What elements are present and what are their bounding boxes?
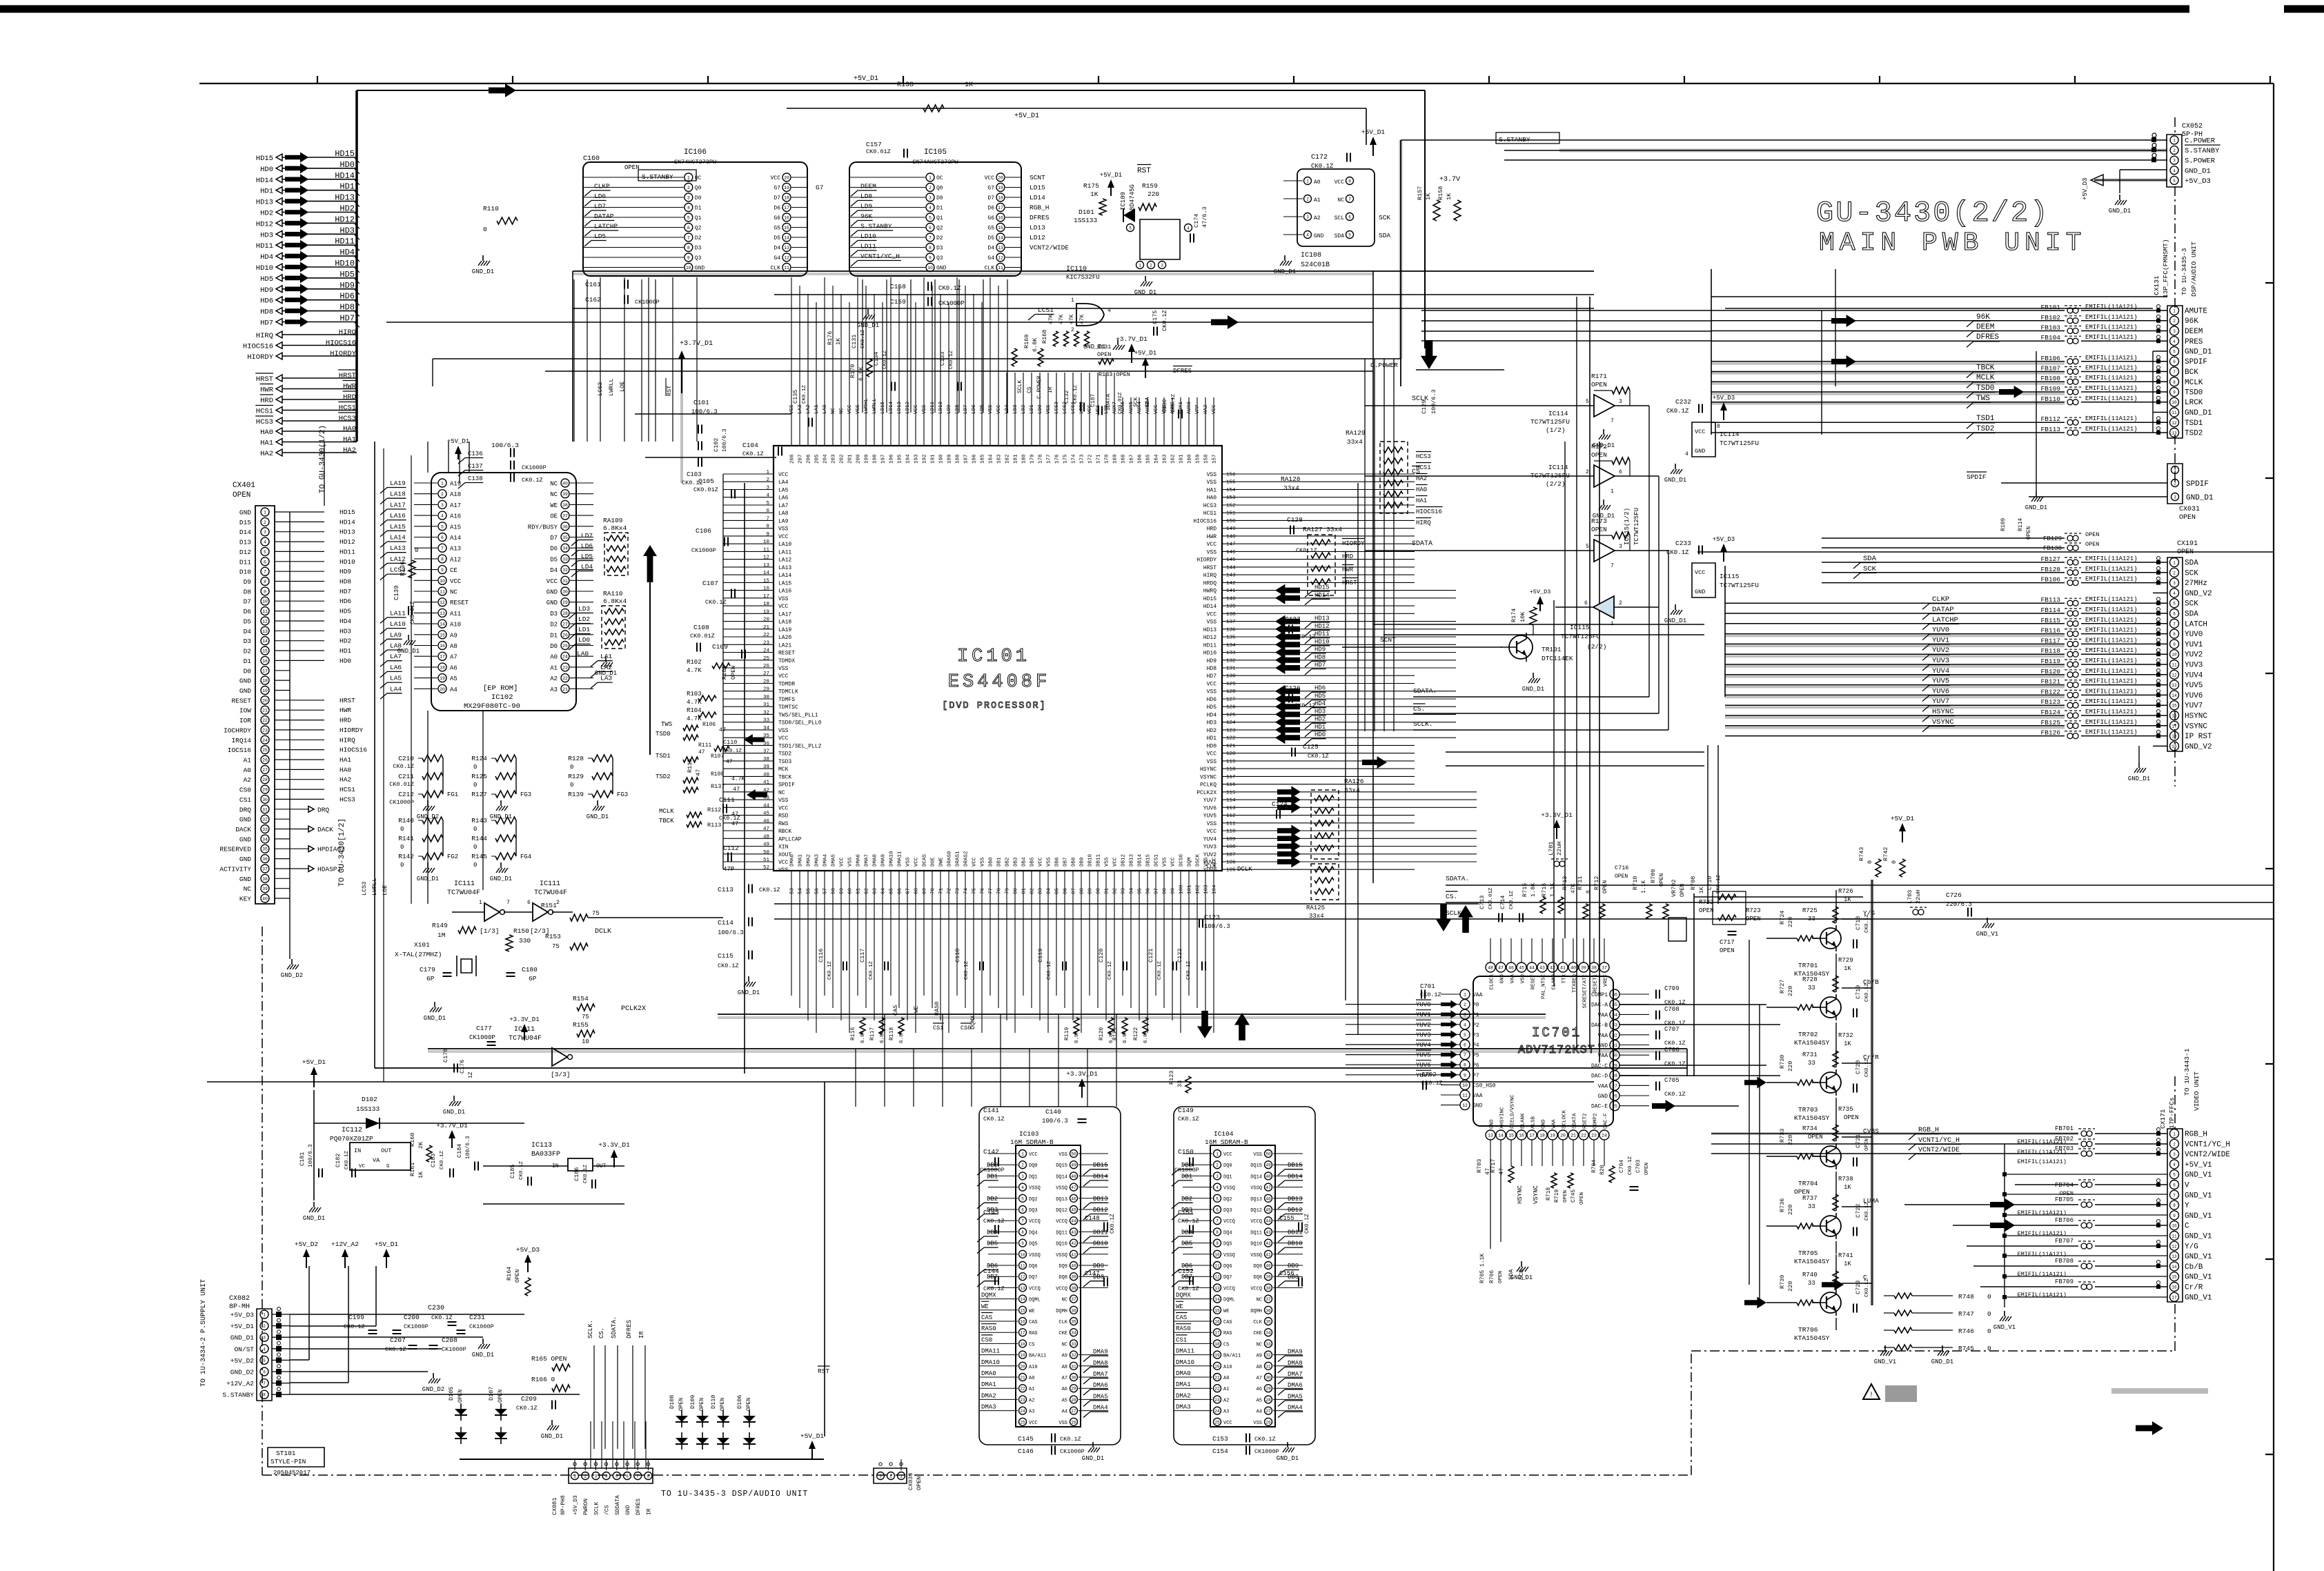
svg-text:HRST: HRST bbox=[339, 372, 356, 380]
svg-text:LD9: LD9 bbox=[860, 203, 872, 210]
svg-text:AUX1: AUX1 bbox=[1179, 401, 1184, 414]
svg-text:14: 14 bbox=[1498, 1134, 1504, 1138]
svg-text:CS.: CS. bbox=[1446, 893, 1457, 900]
svg-text:6.8K: 6.8K bbox=[880, 1030, 885, 1043]
svg-text:+5V_V1: +5V_V1 bbox=[2185, 1161, 2212, 1169]
svg-text:DB5: DB5 bbox=[987, 1241, 998, 1247]
svg-text:DMA11: DMA11 bbox=[898, 851, 903, 867]
svg-text:R136: R136 bbox=[400, 561, 406, 576]
svg-text:VSS: VSS bbox=[1207, 480, 1217, 486]
svg-text:R740: R740 bbox=[1802, 1272, 1818, 1278]
svg-text:OPEN: OPEN bbox=[624, 164, 640, 171]
svg-text:GND: GND bbox=[936, 266, 947, 272]
svg-text:9: 9 bbox=[2173, 642, 2176, 647]
svg-text:FB122: FB122 bbox=[2040, 688, 2060, 695]
svg-text:208: 208 bbox=[790, 454, 796, 464]
svg-text:D101: D101 bbox=[1079, 208, 1094, 216]
svg-text:A4: A4 bbox=[1257, 1410, 1262, 1415]
svg-text:C723: C723 bbox=[1855, 1281, 1862, 1294]
svg-text:HSYNC: HSYNC bbox=[1200, 767, 1217, 773]
svg-text:4: 4 bbox=[1107, 308, 1111, 314]
svg-text:198: 198 bbox=[873, 454, 878, 464]
svg-text:LD3: LD3 bbox=[578, 605, 590, 613]
svg-text:HD5: HD5 bbox=[339, 270, 355, 279]
svg-text:12: 12 bbox=[998, 256, 1003, 261]
svg-text:LA1: LA1 bbox=[600, 653, 612, 660]
svg-text:199: 199 bbox=[865, 454, 870, 464]
svg-text:143: 143 bbox=[1226, 573, 1236, 579]
svg-text:184: 184 bbox=[989, 454, 994, 464]
svg-text:HD9: HD9 bbox=[339, 281, 355, 290]
svg-text:31: 31 bbox=[1612, 1043, 1617, 1048]
svg-text:R151: R151 bbox=[541, 902, 557, 909]
svg-text:GND: GND bbox=[1473, 1103, 1483, 1109]
svg-text:HD4: HD4 bbox=[1314, 700, 1326, 707]
svg-text:CK0.1Z: CK0.1Z bbox=[705, 599, 727, 606]
svg-text:FB103: FB103 bbox=[2040, 324, 2060, 332]
svg-text:19: 19 bbox=[440, 676, 445, 681]
svg-text:GND_V2: GND_V2 bbox=[2185, 590, 2212, 598]
svg-text:DMA1: DMA1 bbox=[798, 853, 804, 867]
svg-text:5: 5 bbox=[264, 550, 266, 555]
svg-text:195: 195 bbox=[898, 454, 903, 464]
svg-text:YUV3: YUV3 bbox=[1416, 1031, 1431, 1038]
svg-text:EMIFIL(11A121): EMIFIL(11A121) bbox=[2085, 576, 2138, 583]
svg-text:GND_D1: GND_D1 bbox=[2185, 167, 2211, 175]
svg-text:R158: R158 bbox=[1437, 186, 1444, 200]
svg-text:10: 10 bbox=[2172, 400, 2177, 405]
svg-text:VCC: VCC bbox=[914, 857, 920, 867]
svg-text:DMA10: DMA10 bbox=[1176, 1359, 1194, 1366]
svg-text:L703: L703 bbox=[1907, 890, 1913, 904]
svg-text:47: 47 bbox=[1498, 1168, 1505, 1175]
svg-text:Y: Y bbox=[2185, 1202, 2189, 1210]
svg-text:142: 142 bbox=[1226, 581, 1236, 586]
svg-text:DEEM: DEEM bbox=[1976, 324, 1994, 332]
svg-text:OPEN: OPEN bbox=[1844, 1114, 1859, 1121]
svg-text:SCLK.: SCLK. bbox=[1413, 720, 1433, 728]
svg-text:220/6.3: 220/6.3 bbox=[1946, 901, 1972, 908]
svg-text:EMIFIL(11A121): EMIFIL(11A121) bbox=[2085, 596, 2138, 603]
svg-text:R170: R170 bbox=[849, 364, 856, 378]
svg-text:59: 59 bbox=[840, 888, 845, 894]
svg-text:GND: GND bbox=[239, 687, 251, 695]
svg-text:27: 27 bbox=[763, 671, 769, 677]
svg-text:D1: D1 bbox=[244, 658, 252, 665]
svg-text:HA2: HA2 bbox=[339, 776, 351, 784]
svg-text:20: 20 bbox=[262, 698, 268, 703]
svg-text:HD6: HD6 bbox=[1207, 697, 1217, 703]
svg-text:FB108: FB108 bbox=[2040, 375, 2060, 382]
svg-text:128: 128 bbox=[1226, 689, 1236, 695]
svg-text:32: 32 bbox=[1266, 1353, 1271, 1358]
svg-text:10: 10 bbox=[927, 266, 933, 270]
svg-text:42: 42 bbox=[1071, 1241, 1076, 1246]
svg-text:5: 5 bbox=[2173, 602, 2176, 606]
svg-text:8: 8 bbox=[647, 1474, 650, 1479]
svg-text:R176: R176 bbox=[827, 331, 834, 345]
svg-text:17: 17 bbox=[440, 655, 445, 660]
svg-text:CK1000P: CK1000P bbox=[980, 1167, 1005, 1174]
svg-text:3: 3 bbox=[1619, 544, 1622, 550]
svg-text:7: 7 bbox=[506, 900, 510, 906]
svg-text:YUV2: YUV2 bbox=[1932, 646, 1949, 655]
svg-text:A2: A2 bbox=[1314, 215, 1321, 221]
svg-text:VSS: VSS bbox=[1207, 689, 1217, 695]
svg-text:C134: C134 bbox=[873, 352, 880, 366]
svg-text:A4: A4 bbox=[450, 686, 457, 693]
svg-text:VSS: VSS bbox=[906, 857, 912, 867]
svg-text:VSSQ: VSSQ bbox=[1056, 1186, 1067, 1192]
svg-text:HD8: HD8 bbox=[1207, 666, 1217, 672]
svg-text:OPEN: OPEN bbox=[233, 491, 250, 500]
svg-text:GND_D2: GND_D2 bbox=[281, 972, 303, 979]
svg-text:HD11: HD11 bbox=[1203, 642, 1217, 649]
svg-text:6: 6 bbox=[2173, 612, 2176, 617]
svg-text:13: 13 bbox=[2172, 1254, 2177, 1259]
svg-text:100/6.3: 100/6.3 bbox=[1430, 389, 1437, 414]
svg-text:HA2: HA2 bbox=[343, 446, 356, 455]
svg-text:HA1: HA1 bbox=[339, 756, 351, 764]
svg-text:C162: C162 bbox=[585, 296, 601, 304]
svg-text:46: 46 bbox=[1508, 966, 1514, 971]
svg-text:R747: R747 bbox=[1958, 1310, 1974, 1318]
svg-text:CK0.1Z: CK0.1Z bbox=[1178, 1218, 1199, 1225]
svg-text:TC7WT125FU: TC7WT125FU bbox=[1633, 508, 1640, 545]
svg-text:D107: D107 bbox=[488, 1387, 495, 1401]
svg-text:47K: 47K bbox=[1079, 314, 1085, 324]
svg-text:DMA2: DMA2 bbox=[1176, 1392, 1191, 1399]
svg-text:GND_D1: GND_D1 bbox=[1277, 1455, 1299, 1462]
svg-text:DQ12: DQ12 bbox=[1056, 1208, 1067, 1214]
svg-text:DMA9: DMA9 bbox=[1288, 1349, 1303, 1356]
svg-text:DATAP: DATAP bbox=[594, 213, 614, 220]
svg-text:12: 12 bbox=[440, 600, 445, 605]
svg-text:EMIFIL(11A121): EMIFIL(11A121) bbox=[2018, 1230, 2067, 1237]
svg-text:[3/3]: [3/3] bbox=[551, 1071, 571, 1078]
svg-text:R175: R175 bbox=[1083, 182, 1099, 190]
svg-text:GND_D2: GND_D2 bbox=[417, 813, 439, 820]
svg-text:DB14: DB14 bbox=[1138, 853, 1143, 867]
svg-text:78: 78 bbox=[997, 888, 1003, 894]
svg-text:YUV0: YUV0 bbox=[2185, 631, 2203, 639]
svg-text:33: 33 bbox=[1808, 985, 1815, 991]
svg-text:VSS: VSS bbox=[1207, 821, 1217, 827]
svg-text:23: 23 bbox=[1591, 1134, 1597, 1138]
svg-text:66: 66 bbox=[898, 887, 903, 894]
svg-text:47: 47 bbox=[719, 727, 726, 733]
svg-text:175: 175 bbox=[1063, 454, 1069, 464]
svg-text:HA2: HA2 bbox=[260, 450, 273, 458]
svg-text:+5V_D1: +5V_D1 bbox=[1014, 112, 1039, 120]
svg-text:OC: OC bbox=[695, 175, 702, 181]
svg-text:HRD: HRD bbox=[1342, 553, 1353, 560]
svg-text:C180: C180 bbox=[522, 966, 538, 974]
svg-text:FB702: FB702 bbox=[2055, 1136, 2074, 1143]
svg-text:OPEN: OPEN bbox=[1659, 873, 1665, 887]
svg-text:FB128: FB128 bbox=[2040, 566, 2060, 573]
svg-text:D5: D5 bbox=[550, 556, 558, 563]
svg-text:16: 16 bbox=[1519, 1134, 1524, 1138]
svg-text:7: 7 bbox=[1464, 1053, 1466, 1058]
svg-text:EMIFIL(11A121): EMIFIL(11A121) bbox=[2085, 606, 2138, 613]
svg-text:GND_V1: GND_V1 bbox=[1874, 1358, 1896, 1365]
svg-text:CX401: CX401 bbox=[233, 482, 255, 490]
svg-text:27: 27 bbox=[1612, 1084, 1617, 1089]
svg-text:HD0: HD0 bbox=[339, 160, 355, 170]
svg-text:1: 1 bbox=[687, 176, 690, 181]
svg-text:C107: C107 bbox=[702, 580, 718, 587]
svg-text:DMA6: DMA6 bbox=[1288, 1382, 1303, 1389]
svg-text:197: 197 bbox=[881, 454, 887, 464]
svg-text:5: 5 bbox=[2173, 350, 2176, 355]
svg-text:46: 46 bbox=[1266, 1196, 1271, 1201]
svg-text:10K: 10K bbox=[1519, 611, 1526, 622]
svg-text:CK0.1Z: CK0.1Z bbox=[1254, 1436, 1276, 1443]
svg-text:41: 41 bbox=[1266, 1252, 1271, 1257]
svg-text:4: 4 bbox=[263, 1347, 266, 1352]
svg-text:R706: R706 bbox=[1489, 1270, 1495, 1283]
svg-text:12: 12 bbox=[2172, 421, 2177, 426]
svg-text:140: 140 bbox=[1226, 596, 1236, 602]
svg-text:LA6: LA6 bbox=[778, 495, 789, 502]
svg-text:DQ10: DQ10 bbox=[1056, 1242, 1067, 1247]
svg-text:CK0.01Z: CK0.01Z bbox=[389, 781, 414, 788]
svg-text:A3: A3 bbox=[1029, 1410, 1034, 1415]
svg-text:VCC: VCC bbox=[450, 578, 462, 585]
svg-text:FB104: FB104 bbox=[2040, 334, 2060, 342]
svg-text:RAS0: RAS0 bbox=[934, 1002, 941, 1016]
svg-text:KTA1504SY: KTA1504SY bbox=[1794, 1258, 1830, 1265]
svg-text:HD10: HD10 bbox=[1314, 638, 1330, 645]
svg-text:10: 10 bbox=[440, 579, 445, 584]
svg-text:C148: C148 bbox=[1085, 1215, 1100, 1222]
svg-text:VSSQ: VSSQ bbox=[1250, 1186, 1262, 1192]
svg-text:DSP/AUDIO UNIT: DSP/AUDIO UNIT bbox=[2190, 241, 2198, 297]
svg-text:5: 5 bbox=[687, 216, 690, 221]
svg-text:R120: R120 bbox=[1099, 1027, 1105, 1040]
svg-text:R133 OPEN: R133 OPEN bbox=[1099, 371, 1130, 378]
svg-text:R112: R112 bbox=[707, 807, 721, 813]
svg-text:C136: C136 bbox=[468, 451, 483, 457]
svg-text:DMA6: DMA6 bbox=[1093, 1382, 1108, 1389]
svg-text:33x4: 33x4 bbox=[1347, 438, 1363, 446]
svg-text:57: 57 bbox=[823, 888, 829, 894]
svg-text:6.8Kx4: 6.8Kx4 bbox=[603, 597, 627, 605]
svg-text:VCCQ: VCCQ bbox=[1056, 1219, 1067, 1225]
svg-text:55: 55 bbox=[807, 887, 812, 894]
svg-text:DMA7: DMA7 bbox=[1288, 1371, 1303, 1378]
svg-text:CKE: CKE bbox=[1058, 1331, 1067, 1336]
svg-text:D9: D9 bbox=[244, 578, 252, 586]
svg-text:144: 144 bbox=[1226, 565, 1236, 571]
svg-text:0: 0 bbox=[1867, 860, 1873, 864]
svg-text:GND: GND bbox=[695, 266, 705, 272]
svg-text:DEEM: DEEM bbox=[2185, 328, 2203, 336]
svg-text:A3: A3 bbox=[550, 686, 558, 693]
svg-text:R149: R149 bbox=[432, 922, 448, 929]
svg-text:71: 71 bbox=[939, 887, 945, 894]
svg-text:WE: WE bbox=[550, 502, 558, 509]
svg-text:DB7: DB7 bbox=[1063, 857, 1069, 867]
svg-text:SCLK: SCLK bbox=[1412, 395, 1428, 403]
svg-text:CS1: CS1 bbox=[1176, 1336, 1187, 1343]
svg-text:GND_D1: GND_D1 bbox=[1082, 1455, 1104, 1462]
svg-text:OPEN: OPEN bbox=[1591, 451, 1607, 459]
svg-text:77: 77 bbox=[989, 888, 994, 894]
svg-text:HIOCS16: HIOCS16 bbox=[339, 747, 367, 754]
svg-text:22: 22 bbox=[1581, 1134, 1586, 1138]
svg-text:C109: C109 bbox=[712, 643, 728, 651]
svg-text:+3.3V_D1: +3.3V_D1 bbox=[1541, 811, 1573, 819]
svg-text:LD11: LD11 bbox=[930, 401, 936, 414]
svg-text:4.7K: 4.7K bbox=[731, 776, 745, 782]
svg-text:SDA: SDA bbox=[1863, 555, 1877, 563]
svg-text:37: 37 bbox=[763, 749, 769, 755]
svg-text:D0: D0 bbox=[695, 195, 702, 201]
svg-text:AMUTE: AMUTE bbox=[2185, 308, 2207, 316]
svg-text:26: 26 bbox=[262, 758, 268, 763]
svg-text:44: 44 bbox=[763, 803, 770, 809]
svg-text:2050452017: 2050452017 bbox=[273, 1470, 311, 1476]
svg-text:50: 50 bbox=[763, 850, 770, 856]
svg-text:GND_D2: GND_D2 bbox=[230, 1369, 255, 1376]
svg-text:HIRQ: HIRQ bbox=[1203, 573, 1217, 579]
svg-text:HD7: HD7 bbox=[1207, 673, 1217, 680]
svg-text:113: 113 bbox=[1226, 806, 1236, 811]
svg-text:90: 90 bbox=[1096, 887, 1102, 894]
svg-text:HD6: HD6 bbox=[339, 292, 355, 302]
svg-text:C199: C199 bbox=[348, 1314, 364, 1321]
svg-text:KEY: KEY bbox=[239, 896, 251, 903]
svg-text:R722: R722 bbox=[1699, 899, 1714, 906]
svg-text:CK0.1Z: CK0.1Z bbox=[519, 1160, 524, 1180]
svg-text:TSD2: TSD2 bbox=[2185, 430, 2203, 438]
svg-text:2: 2 bbox=[2173, 1142, 2176, 1147]
svg-text:A16: A16 bbox=[450, 513, 461, 520]
svg-text:CS: CS bbox=[1223, 1342, 1229, 1347]
svg-text:15: 15 bbox=[2172, 704, 2177, 709]
svg-text:SCRESET/ATC: SCRESET/ATC bbox=[1583, 974, 1588, 1009]
svg-text:R144: R144 bbox=[471, 835, 487, 842]
svg-text:(1/2): (1/2) bbox=[1546, 426, 1566, 434]
svg-text:VCC: VCC bbox=[1223, 1421, 1232, 1426]
svg-text:+5V_D1: +5V_D1 bbox=[800, 1432, 825, 1440]
svg-text:3: 3 bbox=[766, 486, 769, 491]
svg-text:TC7WT125FU: TC7WT125FU bbox=[1720, 439, 1759, 447]
svg-text:SPDIF: SPDIF bbox=[1967, 473, 1987, 481]
svg-text:70: 70 bbox=[931, 887, 936, 894]
svg-text:R730: R730 bbox=[1779, 1055, 1786, 1069]
svg-text:SDA: SDA bbox=[1335, 233, 1345, 239]
svg-text:19: 19 bbox=[2172, 744, 2177, 749]
svg-text:21: 21 bbox=[1570, 1134, 1576, 1138]
svg-text:17: 17 bbox=[763, 594, 769, 600]
svg-text:DMA3: DMA3 bbox=[1176, 1404, 1191, 1411]
svg-text:YUV3: YUV3 bbox=[1203, 844, 1217, 851]
svg-text:3: 3 bbox=[2173, 581, 2176, 586]
svg-text:CS.: CS. bbox=[1413, 705, 1425, 713]
svg-text:R703: R703 bbox=[1476, 1159, 1483, 1173]
svg-text:D4: D4 bbox=[987, 246, 994, 252]
svg-text:HD0: HD0 bbox=[1207, 743, 1217, 749]
svg-text:DAC-E: DAC-E bbox=[1591, 1104, 1608, 1110]
svg-text:CK0.1Z: CK0.1Z bbox=[1716, 874, 1722, 893]
svg-text:C172: C172 bbox=[1311, 154, 1328, 161]
svg-text:HIOCS16: HIOCS16 bbox=[326, 339, 356, 348]
svg-text:6P: 6P bbox=[529, 975, 537, 982]
svg-text:72: 72 bbox=[947, 888, 953, 894]
svg-text:11: 11 bbox=[763, 547, 770, 553]
svg-text:76: 76 bbox=[981, 887, 986, 894]
svg-text:HA2: HA2 bbox=[1203, 404, 1209, 414]
svg-text:(2/2): (2/2) bbox=[1587, 643, 1607, 651]
svg-text:C231: C231 bbox=[469, 1314, 485, 1321]
svg-text:DMA4: DMA4 bbox=[1288, 1405, 1303, 1412]
svg-text:OPEN: OPEN bbox=[515, 1269, 521, 1283]
svg-text:145: 145 bbox=[1226, 557, 1236, 563]
svg-text:12: 12 bbox=[262, 620, 268, 624]
svg-text:R708: R708 bbox=[1690, 876, 1697, 890]
svg-text:33: 33 bbox=[1808, 1280, 1815, 1287]
svg-text:DACK: DACK bbox=[317, 826, 333, 833]
svg-text:33: 33 bbox=[1071, 1342, 1076, 1347]
svg-text:22: 22 bbox=[262, 718, 268, 723]
svg-text:YUV7: YUV7 bbox=[1203, 798, 1217, 804]
svg-text:1K: 1K bbox=[1425, 192, 1432, 200]
svg-text:31: 31 bbox=[262, 807, 268, 812]
svg-text:C714: C714 bbox=[1499, 896, 1506, 909]
svg-text:C184: C184 bbox=[456, 1144, 463, 1158]
svg-text:LA2: LA2 bbox=[806, 404, 811, 414]
svg-text:S.STANBY: S.STANBY bbox=[2185, 147, 2220, 155]
svg-text:LD1: LD1 bbox=[578, 626, 590, 633]
svg-text:1: 1 bbox=[264, 511, 266, 515]
svg-text:LA14: LA14 bbox=[778, 573, 791, 579]
svg-text:A5: A5 bbox=[450, 675, 457, 682]
svg-text:7: 7 bbox=[2173, 622, 2176, 626]
svg-text:Q1: Q1 bbox=[936, 215, 943, 221]
svg-text:VCNT2/WIDE: VCNT2/WIDE bbox=[2185, 1151, 2230, 1159]
svg-text:[DVD PROCESSOR]: [DVD PROCESSOR] bbox=[942, 701, 1047, 711]
svg-text:13: 13 bbox=[440, 611, 445, 616]
svg-text:C182: C182 bbox=[335, 1154, 342, 1167]
svg-text:17: 17 bbox=[1214, 1331, 1220, 1336]
svg-text:C704: C704 bbox=[1619, 1160, 1625, 1173]
svg-text:FB129: FB129 bbox=[2043, 535, 2062, 542]
svg-text:OPEN: OPEN bbox=[2026, 526, 2032, 540]
svg-text:C209: C209 bbox=[521, 1395, 537, 1403]
svg-text:2: 2 bbox=[264, 520, 266, 525]
svg-text:2: 2 bbox=[1216, 1163, 1219, 1168]
svg-text:158: 158 bbox=[1204, 454, 1210, 464]
svg-text:47: 47 bbox=[726, 759, 733, 765]
svg-text:820: 820 bbox=[1599, 1165, 1606, 1175]
svg-text:2: 2 bbox=[2173, 571, 2176, 575]
svg-text:26: 26 bbox=[763, 664, 770, 669]
svg-text:OPEN: OPEN bbox=[1615, 873, 1628, 880]
svg-text:LD13: LD13 bbox=[1030, 224, 1045, 232]
svg-text:GND_D1: GND_D1 bbox=[2186, 494, 2214, 502]
svg-text:OPEN: OPEN bbox=[678, 1398, 685, 1411]
svg-text:166: 166 bbox=[1138, 454, 1143, 464]
svg-text:VCC: VCC bbox=[1223, 1152, 1232, 1158]
svg-text:Cb/B: Cb/B bbox=[1863, 978, 1879, 986]
svg-text:1K: 1K bbox=[1844, 965, 1851, 972]
svg-text:WE: WE bbox=[913, 1006, 920, 1013]
svg-text:SCK: SCK bbox=[1518, 1269, 1525, 1280]
svg-text:100/6.3: 100/6.3 bbox=[491, 442, 519, 449]
